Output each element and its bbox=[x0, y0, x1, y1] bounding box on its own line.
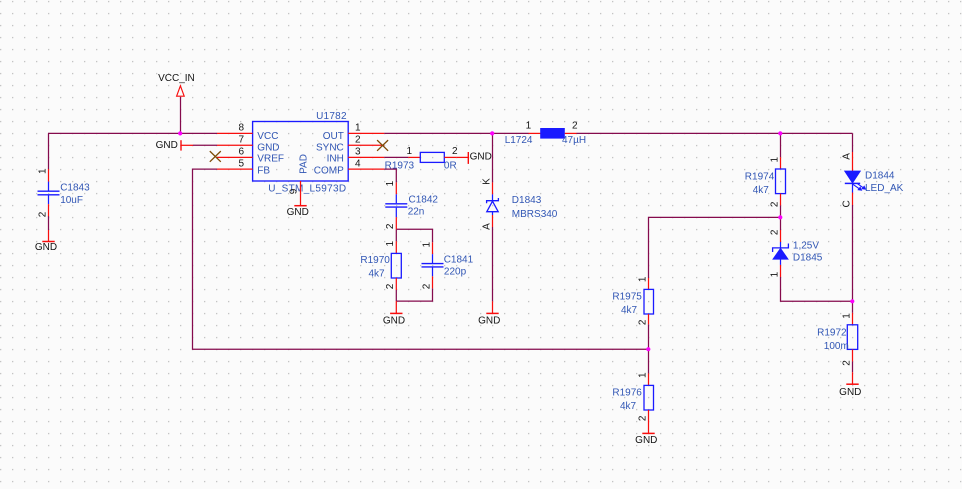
wire D1843 cathode up bbox=[492, 133, 494, 182]
svg-text:5: 5 bbox=[238, 158, 244, 169]
ground below R1972 bbox=[839, 372, 861, 398]
wire COMP down bbox=[384, 169, 396, 182]
wire main rail left bbox=[48, 132, 217, 134]
node junction FB bbox=[646, 347, 650, 351]
wire VCC_IN drop bbox=[180, 97, 182, 134]
svg-text:2: 2 bbox=[37, 211, 48, 217]
svg-text:K: K bbox=[481, 178, 492, 185]
svg-text:2: 2 bbox=[637, 319, 648, 325]
pin 6 VREF bbox=[217, 156, 253, 158]
svg-text:FB: FB bbox=[257, 165, 270, 176]
svg-text:GND: GND bbox=[478, 315, 500, 326]
svg-text:OUT: OUT bbox=[323, 131, 344, 142]
svg-text:GND: GND bbox=[35, 242, 57, 253]
wire D1843 anode down bbox=[492, 227, 494, 301]
ground below R1970 bbox=[383, 301, 405, 326]
wire D1845 top bbox=[780, 217, 782, 230]
node junction divider mid bbox=[778, 215, 782, 219]
pin 7 GND bbox=[217, 144, 253, 146]
svg-text:R1970: R1970 bbox=[360, 255, 390, 266]
svg-text:22n: 22n bbox=[408, 207, 425, 218]
svg-text:10uF: 10uF bbox=[60, 195, 83, 206]
wire D1845 bottom run bbox=[781, 277, 853, 301]
wire node to R1975 bbox=[649, 217, 781, 278]
svg-text:C1841: C1841 bbox=[444, 255, 474, 266]
wire C1843 top bbox=[48, 133, 50, 169]
diode D1843 MBRS340 bbox=[481, 178, 558, 230]
wire R1970 bottom bbox=[395, 290, 397, 301]
svg-text:9: 9 bbox=[288, 188, 299, 194]
pin 1 OUT bbox=[348, 132, 384, 134]
ground below R1976 bbox=[635, 422, 657, 447]
power symbol GND (pin 7) bbox=[156, 140, 193, 151]
svg-text:MBRS340: MBRS340 bbox=[512, 209, 558, 220]
wire LED cathode down bbox=[852, 205, 854, 301]
svg-text:LED_AK: LED_AK bbox=[865, 183, 904, 194]
svg-text:2: 2 bbox=[769, 229, 780, 235]
pin 4 COMP bbox=[348, 168, 384, 170]
svg-text:8: 8 bbox=[238, 122, 244, 133]
svg-text:R1974: R1974 bbox=[745, 171, 775, 182]
svg-text:2: 2 bbox=[355, 134, 361, 145]
svg-text:D1844: D1844 bbox=[865, 170, 895, 181]
wire C1843 bottom bbox=[48, 216, 50, 230]
pin 5 FB bbox=[217, 168, 253, 170]
svg-text:1: 1 bbox=[769, 271, 780, 277]
svg-text:4: 4 bbox=[355, 158, 361, 169]
wire tee to R1970 bbox=[395, 229, 397, 241]
svg-text:D1843: D1843 bbox=[512, 195, 542, 206]
svg-text:GND: GND bbox=[156, 140, 178, 151]
no-connect X on VREF pin bbox=[210, 151, 221, 162]
svg-text:2: 2 bbox=[841, 360, 852, 366]
wire LED anode bbox=[852, 133, 854, 152]
node junction R1974 tap bbox=[778, 131, 782, 135]
svg-text:C1843: C1843 bbox=[60, 183, 90, 194]
wire R1972 top bbox=[852, 301, 854, 313]
svg-text:C1842: C1842 bbox=[409, 195, 439, 206]
LED D1844 bbox=[841, 152, 903, 208]
svg-text:1: 1 bbox=[637, 276, 648, 282]
svg-text:U_STM_L5973D: U_STM_L5973D bbox=[268, 184, 346, 195]
wire R1974 bottom node bbox=[780, 205, 782, 217]
resistor R1976 bbox=[612, 372, 653, 422]
svg-text:L1724: L1724 bbox=[505, 135, 533, 146]
pin 8 VCC bbox=[217, 132, 253, 134]
capacitor C1841 bbox=[421, 241, 473, 289]
zener diode D1845 1,25V bbox=[769, 229, 823, 277]
svg-text:1: 1 bbox=[385, 240, 396, 246]
op-amp U1782 (regulator U_STM_L5973D) bbox=[217, 111, 384, 194]
svg-text:2: 2 bbox=[572, 120, 578, 131]
svg-text:7: 7 bbox=[238, 134, 244, 145]
svg-text:1: 1 bbox=[385, 180, 396, 186]
svg-text:C: C bbox=[841, 200, 852, 207]
node junction LED bottom bbox=[850, 299, 854, 303]
svg-text:2: 2 bbox=[637, 415, 648, 421]
svg-text:2: 2 bbox=[452, 146, 458, 157]
svg-text:PAD: PAD bbox=[298, 154, 309, 174]
resistor R1973 bbox=[385, 146, 458, 172]
pin 3 INH bbox=[348, 156, 384, 158]
svg-text:GND: GND bbox=[470, 152, 492, 163]
svg-text:R1972: R1972 bbox=[817, 327, 847, 338]
svg-text:GND: GND bbox=[635, 435, 657, 446]
svg-text:4k7: 4k7 bbox=[369, 268, 386, 279]
svg-text:220p: 220p bbox=[444, 267, 467, 278]
svg-text:1: 1 bbox=[421, 241, 432, 247]
svg-text:R1975: R1975 bbox=[612, 291, 642, 302]
power symbol VCC_IN bbox=[158, 73, 195, 96]
svg-text:3: 3 bbox=[355, 147, 361, 158]
svg-text:1: 1 bbox=[355, 122, 361, 133]
svg-text:1: 1 bbox=[841, 313, 852, 319]
svg-text:SYNC: SYNC bbox=[316, 142, 344, 153]
svg-text:VCC: VCC bbox=[257, 131, 278, 142]
svg-text:2: 2 bbox=[769, 201, 780, 207]
svg-text:100m: 100m bbox=[824, 341, 849, 352]
svg-text:U1782: U1782 bbox=[316, 111, 347, 122]
svg-text:GND: GND bbox=[383, 315, 405, 326]
wire OUT to L1724 bbox=[384, 132, 528, 134]
wire R1972 bottom bbox=[852, 361, 854, 372]
svg-text:COMP: COMP bbox=[314, 165, 344, 176]
ground below D1843 bbox=[478, 301, 500, 326]
svg-text:0R: 0R bbox=[444, 161, 457, 172]
resistor R1970 bbox=[360, 240, 401, 290]
wire C1841 bottom join bbox=[396, 288, 432, 301]
svg-text:1: 1 bbox=[406, 146, 412, 157]
power symbol GND (R1973) bbox=[456, 152, 492, 164]
svg-text:VCC_IN: VCC_IN bbox=[158, 73, 195, 84]
svg-text:GND: GND bbox=[287, 207, 309, 218]
ground below PAD bbox=[287, 193, 309, 218]
wire INH to R1973 bbox=[384, 156, 408, 158]
LED emission arrows bbox=[853, 183, 867, 191]
wire GND to pin7 bbox=[193, 144, 217, 146]
svg-text:1: 1 bbox=[37, 168, 48, 174]
pin 2 SYNC bbox=[348, 144, 384, 146]
svg-text:1: 1 bbox=[769, 156, 780, 162]
svg-text:GND: GND bbox=[839, 387, 861, 398]
svg-text:4k7: 4k7 bbox=[620, 401, 637, 412]
svg-text:4k7: 4k7 bbox=[621, 305, 638, 316]
svg-text:4k7: 4k7 bbox=[753, 185, 770, 196]
svg-text:1: 1 bbox=[637, 372, 648, 378]
svg-text:1: 1 bbox=[526, 120, 532, 131]
pin 9 PAD bbox=[300, 181, 302, 193]
ground below C1843 bbox=[35, 230, 57, 253]
svg-text:6: 6 bbox=[238, 147, 244, 158]
capacitor C1843 bbox=[37, 168, 90, 217]
svg-text:R1976: R1976 bbox=[612, 387, 642, 398]
node junction VCC rail bbox=[178, 131, 182, 135]
resistor R1975 bbox=[612, 276, 653, 325]
svg-text:2: 2 bbox=[421, 283, 432, 289]
svg-text:2: 2 bbox=[385, 223, 396, 229]
wire L1724 to LED branch bbox=[577, 132, 853, 134]
svg-text:1,25V: 1,25V bbox=[793, 240, 819, 251]
wire R1975 to FB node bbox=[648, 324, 650, 349]
inductor L1724 bbox=[505, 120, 586, 146]
svg-text:D1845: D1845 bbox=[793, 253, 823, 264]
svg-text:A: A bbox=[481, 223, 492, 230]
svg-text:47µH: 47µH bbox=[562, 135, 586, 146]
svg-text:INH: INH bbox=[327, 154, 344, 165]
node junction diode tap bbox=[490, 131, 494, 135]
wire tee to C1841 bbox=[396, 229, 432, 242]
wire FB run bbox=[193, 169, 649, 349]
capacitor C1842 bbox=[385, 180, 438, 229]
wire FB node to R1976 bbox=[648, 349, 650, 373]
wire R1974 top bbox=[780, 133, 782, 157]
resistor R1974 bbox=[745, 156, 786, 207]
svg-text:GND: GND bbox=[257, 142, 279, 153]
svg-text:R1973: R1973 bbox=[385, 161, 415, 172]
svg-text:2: 2 bbox=[385, 283, 396, 289]
resistor R1972 bbox=[817, 313, 858, 366]
svg-text:VREF: VREF bbox=[257, 154, 284, 165]
svg-text:A: A bbox=[841, 153, 852, 160]
no-connect X on SYNC pin bbox=[377, 140, 388, 151]
